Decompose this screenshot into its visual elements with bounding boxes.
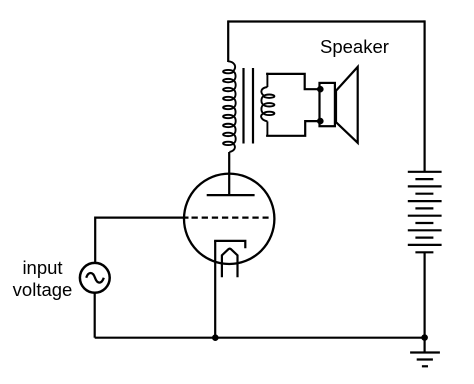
wire: AC source to bottom rail — [94, 293, 96, 338]
junction dot: battery / bottom rail / ground — [421, 334, 428, 341]
ground — [410, 338, 440, 367]
wire: primary coil to tube plate — [228, 152, 230, 195]
speaker cone — [336, 67, 358, 143]
wire: battery bottom lead — [424, 252, 426, 337]
junction dot: cathode / bottom rail — [212, 334, 219, 341]
AC source (input voltage) — [80, 263, 110, 293]
wire: battery top lead — [424, 20, 426, 171]
speaker driver frame — [320, 83, 335, 126]
tube control grid (dashed) — [192, 217, 269, 219]
transformer secondary coil — [261, 73, 274, 136]
wire: grid lead — [95, 217, 188, 219]
tube heater filament — [222, 249, 238, 278]
wire: cathode lead to bottom rail — [214, 241, 216, 338]
wire: secondary top to speaker — [266, 74, 319, 89]
svg-text:voltage: voltage — [13, 279, 73, 300]
tube cathode — [215, 241, 245, 248]
wire: secondary bottom to speaker — [266, 121, 319, 136]
svg-text:input: input — [22, 257, 62, 278]
transformer core — [244, 68, 254, 144]
wire: bottom rail — [95, 337, 425, 339]
tube plate (anode) — [207, 194, 255, 196]
transformer primary coil — [223, 61, 236, 152]
wire: top rail to primary coil — [227, 20, 229, 62]
wire: grid corner down to AC source — [94, 217, 96, 264]
junction dot: speaker top terminal — [317, 86, 324, 93]
tube V1 envelope — [184, 174, 274, 264]
wire: top rail — [228, 20, 424, 22]
battery B1 — [408, 172, 442, 253]
svg-text:Speaker: Speaker — [320, 36, 389, 57]
junction dot: speaker bottom terminal — [317, 118, 324, 125]
label: input voltage — [13, 257, 73, 300]
